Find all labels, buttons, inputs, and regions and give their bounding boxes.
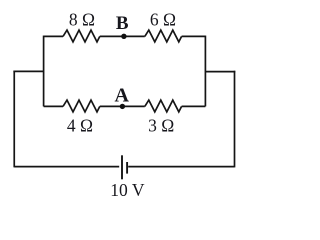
svg-text:4 Ω: 4 Ω	[67, 116, 93, 136]
svg-text:10 V: 10 V	[110, 180, 145, 200]
wire outer right vertical	[234, 71, 236, 168]
wire middle-right lead	[182, 105, 206, 107]
node A	[120, 104, 125, 109]
wire right stub	[205, 71, 235, 73]
svg-text:A: A	[114, 84, 129, 106]
wire top-right lead	[182, 35, 206, 37]
battery V1 short plate	[126, 162, 128, 174]
wire left stub	[13, 70, 43, 72]
resistor R2 6 ohm	[145, 30, 182, 42]
svg-text:B: B	[116, 13, 129, 34]
wire top-left lead	[44, 35, 63, 37]
resistor R1 8 ohm	[63, 30, 100, 42]
wire between R3 and R4 (through node A)	[100, 105, 145, 107]
node B	[121, 34, 126, 39]
svg-text:6 Ω: 6 Ω	[150, 9, 176, 29]
wire inner left vertical	[43, 36, 45, 107]
svg-text:3 Ω: 3 Ω	[148, 116, 174, 136]
wire inner right vertical	[204, 36, 206, 107]
resistor R4 3 ohm	[145, 100, 182, 112]
wire bottom right	[128, 166, 234, 168]
wire middle-left lead	[44, 105, 63, 107]
resistor R3 4 ohm	[63, 100, 100, 112]
wire bottom left	[14, 166, 119, 168]
wire outer left vertical	[13, 71, 15, 168]
battery V1 long plate	[121, 155, 123, 179]
svg-text:8 Ω: 8 Ω	[69, 9, 95, 29]
wire between R1 and R2 (through node B)	[100, 35, 145, 37]
